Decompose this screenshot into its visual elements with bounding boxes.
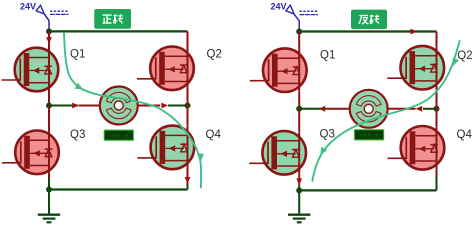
pin motor left [79, 105, 100, 107]
svg-text:Q2: Q2 [457, 50, 472, 62]
svg-text:Q3: Q3 [70, 129, 85, 141]
node bottom-left junction [46, 187, 52, 193]
svg-text:24V: 24V [20, 2, 36, 12]
pin Q2 right-circuit source [436, 89, 438, 108]
wire right drop to Q2 [187, 31, 189, 47]
power terminal left 24V [20, 2, 44, 14]
svg-text:Q1: Q1 [70, 49, 85, 61]
node top junction reverse [296, 29, 302, 35]
transistor Q3 right-circuit [249, 131, 306, 175]
pin motor right reverse [387, 108, 415, 110]
wire ground stub left [48, 190, 50, 215]
transistor Q1 right-circuit [250, 48, 307, 92]
pin Q1 right-circuit source [298, 92, 300, 109]
pin Q1 right-circuit drain [298, 32, 300, 49]
pin Q2 source [187, 90, 189, 106]
wire 24V lead left [44, 14, 49, 30]
flow arrowhead 2 reverse [320, 147, 327, 155]
svg-text:+88.8: +88.8 [359, 132, 379, 139]
current flow path forward [64, 33, 201, 188]
wire motor right segment reverse [423, 108, 437, 110]
pin Q3 source [48, 174, 50, 190]
label forward 正转 [94, 9, 131, 29]
wire motor left segment reverse [299, 108, 326, 110]
wire bottom rail right-circuit [299, 189, 436, 191]
transistor Q3 [2, 131, 59, 175]
motor right [350, 90, 388, 128]
transistor Q2 right-circuit [387, 46, 444, 90]
pin Q4 right-circuit drain [436, 109, 438, 126]
pin Q1 drain with current arrow [46, 31, 52, 48]
wire ground stub right [298, 190, 300, 214]
pin Q1 source [48, 91, 50, 106]
current arrow motor right reverse [416, 106, 423, 112]
pin Q4 right-circuit source [436, 170, 438, 191]
current arrow motor left [72, 103, 79, 109]
node motor-row left junction [46, 103, 52, 109]
pin motor right [137, 105, 160, 107]
power terminal right 24V [271, 2, 295, 14]
svg-text:24V: 24V [271, 2, 287, 12]
pin Q4 drain [187, 106, 189, 126]
svg-text:Q4: Q4 [457, 129, 473, 141]
node motor-row left junction reverse [296, 106, 302, 112]
wire top rail right-circuit [299, 30, 436, 32]
wire right drop to Q2 right-circuit [436, 32, 438, 47]
motor left [100, 87, 138, 125]
wire motor right segment [168, 105, 188, 107]
node top-left junction [46, 28, 52, 34]
current arrow top rail reverse [410, 29, 417, 35]
node motor-row right junction reverse [434, 106, 440, 112]
display left rpm [103, 129, 134, 141]
label reverse 反转 [351, 10, 387, 29]
current arrow motor left reverse [319, 106, 326, 112]
svg-text:Q1: Q1 [320, 49, 335, 61]
svg-text:Q3: Q3 [320, 129, 335, 141]
current arrow motor right [161, 103, 168, 109]
current flow path reverse [312, 41, 459, 181]
display right rpm [354, 129, 385, 141]
net label dashes right [300, 11, 318, 14]
pin motor left reverse [326, 108, 350, 110]
pin Q3 right-circuit source with current arrow [296, 175, 302, 191]
transistor Q1 [2, 48, 59, 92]
node bottom junction reverse [296, 187, 302, 193]
ground right [288, 215, 310, 223]
wire top rail left-circuit [49, 30, 188, 32]
transistor Q4 [137, 126, 194, 170]
flow arrowhead 1 forward [75, 83, 83, 90]
ground left [38, 215, 60, 223]
pin Q4 source with current arrow [185, 169, 191, 190]
transistor Q2 [137, 47, 194, 91]
wire 24V lead right [294, 14, 299, 29]
net label dashes left [50, 11, 69, 14]
transistor Q4 right-circuit [388, 126, 445, 170]
flow arrowhead 2 forward [197, 154, 204, 162]
svg-text:+88.8: +88.8 [109, 133, 129, 140]
wire bottom rail left-circuit [49, 188, 188, 190]
svg-text:Q2: Q2 [207, 49, 222, 61]
pin Q3 right-circuit drain [298, 109, 300, 131]
flow arrowhead 1 reverse [453, 58, 459, 66]
node motor-row right junction [185, 103, 191, 109]
pin Q3 drain [48, 106, 50, 131]
wire motor left segment [49, 105, 78, 107]
svg-text:Q4: Q4 [206, 129, 222, 141]
